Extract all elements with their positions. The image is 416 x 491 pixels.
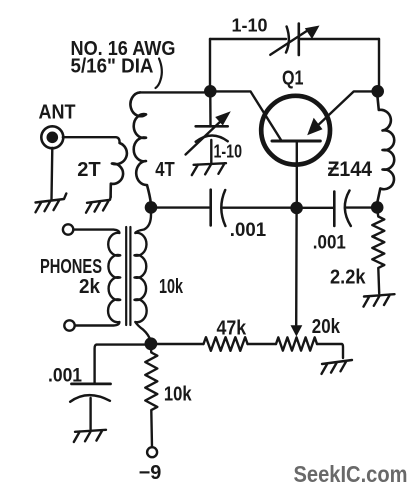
svg-text:.001: .001 xyxy=(313,232,346,254)
capacitor C5 curved plate xyxy=(345,191,351,226)
transistor Q1 base bar xyxy=(272,140,320,143)
capacitor C4 .001 straight plate xyxy=(209,190,212,226)
node D junction dot xyxy=(371,85,384,98)
wire C5 to node E xyxy=(347,206,378,208)
ground (coil L1) xyxy=(86,197,111,213)
wire from antenna to coil L1 xyxy=(63,137,120,143)
potentiometer R4 20k xyxy=(276,337,317,350)
potentiometer wiper arrowhead xyxy=(291,325,303,336)
transformer T1 primary 2k winding xyxy=(74,230,121,326)
ground (R4) xyxy=(322,360,353,374)
battery terminal -9 xyxy=(147,447,157,457)
svg-text:Q1: Q1 xyxy=(282,67,304,89)
ground (R1) xyxy=(364,294,395,306)
wire node C down to potentiometer wiper xyxy=(295,213,298,325)
wire node F left to C6 xyxy=(95,345,145,383)
transistor Q1 collector lead down xyxy=(296,143,298,203)
svg-text:5/16" DIA: 5/16" DIA xyxy=(71,55,154,78)
ground (antenna) xyxy=(36,194,67,213)
svg-text:4T: 4T xyxy=(155,158,175,181)
capacitor C6 lead to ground xyxy=(89,398,91,430)
node F junction dot xyxy=(145,337,158,350)
wire right vertical from top wire to node D xyxy=(378,39,380,86)
wire node A to Q1 base (diagonal) xyxy=(210,91,281,140)
wire R4 to ground xyxy=(317,344,343,358)
resistor R3 47k xyxy=(204,337,248,351)
coil L2 4T xyxy=(130,92,150,203)
wire C4 to node C xyxy=(223,206,291,208)
svg-text:20k: 20k xyxy=(312,316,341,338)
svg-text:.001: .001 xyxy=(48,365,82,387)
node A junction dot xyxy=(204,85,217,98)
svg-text:2.2k: 2.2k xyxy=(330,266,366,288)
transistor Q1 emitter arrowhead xyxy=(307,118,322,135)
capacitor C3 trimmer arrow shaft xyxy=(186,120,223,155)
svg-text:10k: 10k xyxy=(159,275,183,298)
transformer T1 secondary 10k winding xyxy=(135,213,152,340)
transformer T1 core lines xyxy=(126,227,130,325)
wire node B to C4 xyxy=(151,206,209,208)
capacitor C2 1-10 trimmer (top) curved plate xyxy=(286,27,289,53)
capacitor C3 trimmer arrowhead xyxy=(215,111,231,125)
svg-text:2T: 2T xyxy=(77,158,101,181)
capacitor C3 1-10 trimmer (mid) straight plate xyxy=(196,125,228,128)
wire node F to R3 xyxy=(151,343,204,345)
transistor Q1 emitter lead diagonal with wire to node D xyxy=(314,91,378,129)
wire top horizontal (left of C2 plates) xyxy=(210,38,286,40)
capacitor C2 1-10 trimmer (top) straight plate xyxy=(297,24,300,56)
capacitor C4 curved plate xyxy=(221,190,225,226)
coil L3 Z144 xyxy=(378,97,395,202)
svg-text:1-10: 1-10 xyxy=(232,15,268,36)
node B junction dot (under coil L2) xyxy=(145,201,158,214)
capacitor C2 trimmer arrowhead xyxy=(305,26,320,40)
svg-text:.001: .001 xyxy=(230,219,266,241)
svg-text:SeekIC.com: SeekIC.com xyxy=(294,461,408,487)
capacitor C6 curved plate xyxy=(70,395,110,402)
svg-text:47k: 47k xyxy=(217,317,247,339)
svg-text:2k: 2k xyxy=(79,275,101,298)
phones terminal lower xyxy=(64,320,74,330)
svg-text:10k: 10k xyxy=(164,383,192,406)
pointer curve from label to coil L2 xyxy=(156,59,162,89)
capacitor C6 .001 straight plate xyxy=(72,382,111,385)
phones terminal upper xyxy=(63,224,73,234)
wire R3 to R4 xyxy=(248,343,277,345)
node E junction dot xyxy=(371,201,384,214)
capacitor C3 lead to ground xyxy=(210,140,212,164)
wire node A down to C3 xyxy=(209,97,212,125)
svg-text:−9: −9 xyxy=(139,462,162,484)
svg-text:1-10: 1-10 xyxy=(214,140,243,161)
capacitor C2 trimmer arrow shaft xyxy=(270,31,307,55)
capacitor C3 curved plate xyxy=(196,136,228,142)
wire top horizontal (right of C2 plates) xyxy=(300,38,380,40)
antenna terminal inner dot xyxy=(47,132,59,144)
wire node C to C5 xyxy=(297,207,333,209)
antenna terminal outer circle xyxy=(41,126,63,148)
node C junction dot xyxy=(290,202,303,215)
wire left vertical from top wire to node A xyxy=(209,39,211,86)
ground (C3) xyxy=(192,163,226,175)
coil L1 2T xyxy=(111,143,127,197)
transistor Q1 circle xyxy=(261,96,330,165)
wire antenna down to ground xyxy=(50,148,53,200)
svg-text:ANT: ANT xyxy=(39,100,76,123)
wire coil L2 top to node A xyxy=(140,91,204,93)
resistor R1 2.2k xyxy=(372,210,384,294)
svg-text:Ƶ144: Ƶ144 xyxy=(328,158,373,181)
resistor R2 10k (to -9) xyxy=(145,348,157,447)
ground (C6) xyxy=(74,430,106,442)
capacitor C5 .001 straight plate xyxy=(333,192,336,226)
